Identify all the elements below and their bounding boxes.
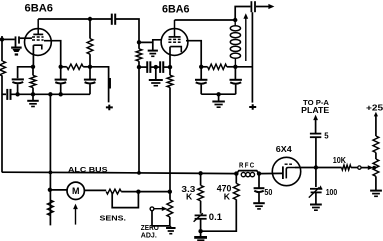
- svg-text:SENS.: SENS.: [100, 213, 127, 222]
- meter M circle: [67, 182, 84, 199]
- tube V1 plate: [33, 33, 43, 35]
- tube V3 heater dashes: [285, 163, 288, 165]
- meter polarity arrow: [75, 209, 77, 225]
- wire V1 plate line: [38, 18, 111, 20]
- wire mid ground rail: [201, 93, 236, 95]
- node rail meter tap: [48, 92, 52, 96]
- node bypass center: [154, 65, 158, 69]
- wire output lead: [256, 6, 269, 8]
- wire trimmer to ground: [315, 192, 317, 204]
- tube V2 grid g1 dashes: [168, 38, 171, 40]
- svg-text:0.1: 0.1: [209, 212, 222, 222]
- ground grid cap wedge: [11, 46, 22, 48]
- svg-text:K: K: [224, 191, 231, 201]
- resistor R-screen dropping: [61, 66, 67, 68]
- wire bus to 6X4: [259, 172, 282, 174]
- node RFC left: [235, 172, 239, 176]
- tube V1 envelope: [25, 29, 52, 56]
- capacitor C 100 trimmer: [310, 188, 322, 190]
- node B+ terminal 2 plus: [249, 104, 256, 110]
- wire bypass link b: [151, 66, 160, 68]
- capacitor C-plate bypass: [89, 67, 91, 79]
- capacitor C-grid V1 plate1: [15, 36, 17, 46]
- wire meter drop line: [49, 94, 51, 225]
- wire meter left lead: [50, 189, 67, 191]
- svg-text:ADJ.: ADJ.: [141, 231, 157, 240]
- tube V2 cathode: [170, 47, 181, 53]
- node to-plate arrow: [313, 115, 318, 121]
- resistor R-cathode V1: [32, 67, 34, 76]
- wire ground rail left: [11, 93, 90, 95]
- wire cathode to bypass cap: [18, 67, 33, 78]
- resistor R pot bleeder lower: [373, 159, 379, 176]
- resistor R 470K: [235, 174, 237, 184]
- capacitor C-grid V1 plate2: [18, 36, 20, 43]
- inductor L-IF primary: [234, 20, 236, 25]
- node output junction: [314, 165, 318, 169]
- wire V2 screen stub: [186, 41, 201, 67]
- pot wiper terminal circle: [150, 207, 154, 211]
- node rail-screen-cap: [59, 92, 63, 96]
- wire AVC line lower: [1, 76, 3, 172]
- capacitor C-cath bypass: [12, 78, 24, 80]
- svg-text:100: 100: [326, 188, 338, 197]
- node plate xfmr junction: [233, 18, 237, 22]
- resistor R-plate load V1: [89, 19, 91, 39]
- node rail-cath-cap: [15, 92, 19, 96]
- capacitor C-output plate2: [254, 1, 256, 12]
- svg-text:6X4: 6X4: [276, 144, 292, 154]
- node RFC right: [257, 171, 261, 175]
- node grid line bypass junction: [137, 65, 141, 69]
- resistor R 10K: [316, 167, 342, 169]
- wire slug adjust line: [245, 18, 247, 61]
- capacitor C-screen bypass V2: [200, 67, 202, 80]
- node B+ terminal plus: [106, 105, 113, 111]
- capacitor C 5pF: [310, 133, 321, 135]
- ground zero adj: [170, 226, 172, 228]
- wire pot middle: [375, 153, 377, 160]
- node pot wiper junction: [372, 166, 376, 170]
- capacitor C-bypass 2: [159, 61, 161, 73]
- node V1 cathode junction: [31, 65, 35, 69]
- node plate line tap: [88, 17, 92, 21]
- resistor R-screen V2: [201, 66, 207, 68]
- capacitor C-rail series: [2, 93, 6, 95]
- node mid rail: [216, 92, 220, 96]
- wire 0.1 to bottom rail: [200, 219, 202, 231]
- wire xfmr top: [235, 7, 250, 21]
- connector small circle: [358, 166, 361, 169]
- svg-text:6BA6: 6BA6: [25, 2, 54, 14]
- ground pot: [370, 190, 382, 192]
- tube V1 grid g1 dashes: [32, 36, 35, 38]
- wire B+ line to xfmr: [235, 66, 252, 68]
- node slug arrow: [243, 13, 248, 19]
- wire 5pF to output line: [315, 137, 317, 167]
- wire ALC bus: [2, 172, 237, 173]
- capacitor C-coupling: [111, 14, 113, 25]
- ground mid rail: [218, 94, 220, 101]
- tube V3 6X4 envelope: [272, 157, 300, 185]
- wire coupling to grid V2: [115, 19, 139, 42]
- ground trimmer: [310, 204, 322, 206]
- inductor RFC arch: [237, 171, 260, 174]
- svg-text:5: 5: [324, 132, 329, 141]
- ground bypass center: [155, 67, 157, 80]
- svg-text:6BA6: 6BA6: [162, 3, 190, 15]
- capacitor C-bypass 1: [146, 61, 148, 73]
- node grid V2 junction: [137, 40, 141, 44]
- svg-text:+250: +250: [366, 103, 383, 113]
- ground grid V2: [148, 50, 158, 52]
- node meter line to pot: [168, 190, 172, 194]
- wire bypass link a: [139, 66, 147, 68]
- resistor R pot bleeder upper: [373, 136, 379, 153]
- node output arrow: [268, 4, 274, 9]
- tube V2 plate: [169, 36, 181, 38]
- wire V3 output: [295, 167, 316, 169]
- wire V1 cathode lead: [32, 45, 34, 67]
- resistor R-AVC filter: [0, 61, 6, 76]
- node rail-cath-res: [31, 92, 35, 96]
- wire cap to ground rail: [17, 84, 19, 94]
- tube V2 cathode lead: [169, 47, 171, 76]
- node AVC grid: [0, 37, 4, 41]
- wire bypass link c: [164, 66, 170, 68]
- resistor R-cathode V2: [167, 75, 173, 87]
- node bus crossing: [49, 171, 53, 175]
- wire grid network V2: [139, 40, 161, 50]
- wire grid stub V1: [20, 37, 32, 39]
- pot wiper arrow: [154, 208, 162, 210]
- node bus 470K tap: [234, 171, 238, 175]
- wire output vertical B+: [251, 12, 253, 102]
- wire output to trimmer: [315, 168, 317, 188]
- svg-text:PLATE: PLATE: [301, 106, 329, 115]
- tube V1 cathode: [33, 45, 41, 49]
- wire AVC grid line: [2, 38, 15, 40]
- wire bottom rail: [201, 199, 237, 231]
- node plate-B+ junction: [88, 65, 92, 69]
- ground bottom rail: [200, 231, 202, 236]
- tube V3 cathode: [286, 168, 295, 179]
- wire wiper: [361, 167, 368, 169]
- node xfmr bottom junction: [233, 65, 237, 69]
- wire pot to ground: [375, 176, 377, 190]
- node bus 3.3K tap: [198, 171, 202, 175]
- wire to 5pF: [315, 119, 317, 133]
- ground rail ground symbol: [32, 94, 34, 100]
- node grid R bus junction: [137, 171, 141, 175]
- capacitor C 50pF: [258, 174, 260, 188]
- node cathode bypass right: [168, 65, 172, 69]
- node wiper arrow: [368, 165, 374, 170]
- tube V2 envelope: [161, 29, 188, 56]
- tube V2 grid g2 dashes: [168, 41, 171, 43]
- node screen junction V1: [59, 65, 63, 69]
- svg-text:RFC: RFC: [239, 163, 255, 170]
- wire meter right lead: [84, 189, 106, 191]
- node meter junction: [48, 188, 52, 192]
- wire AVC line left: [1, 36, 3, 61]
- wire V2 plate line: [175, 19, 236, 21]
- capacitor C-output plate1: [250, 1, 252, 12]
- wire B+ feed stage1: [90, 67, 109, 103]
- capacitor C-xfmr bypass: [234, 67, 236, 80]
- wire V1 screen stub: [44, 41, 61, 67]
- svg-text:M: M: [72, 186, 80, 196]
- wire pot return loop: [152, 211, 170, 226]
- ground 50pF: [253, 202, 265, 204]
- svg-text:10K: 10K: [333, 156, 347, 165]
- node SENS junction: [136, 190, 140, 194]
- resistor R-zero-adj pot: [167, 200, 173, 217]
- wire +250 lead: [374, 112, 378, 117]
- resistor R-meter shunt: [48, 200, 54, 215]
- wire SENS shorting loop: [112, 192, 138, 208]
- resistor R-SENS rheostat: [106, 189, 121, 194]
- node screen junction V2: [199, 65, 203, 69]
- resistor R 3.3K: [200, 173, 202, 185]
- capacitor C 0.1: [195, 214, 207, 216]
- tube V1 grid g2 dashes: [32, 39, 35, 41]
- resistor R-grid V2: [138, 42, 140, 49]
- node bottom rail: [198, 229, 202, 233]
- capacitor C-screen bypass V1: [60, 67, 62, 79]
- tube V3 anode bar: [282, 166, 284, 179]
- svg-text:K: K: [186, 191, 193, 201]
- svg-text:50: 50: [264, 187, 272, 197]
